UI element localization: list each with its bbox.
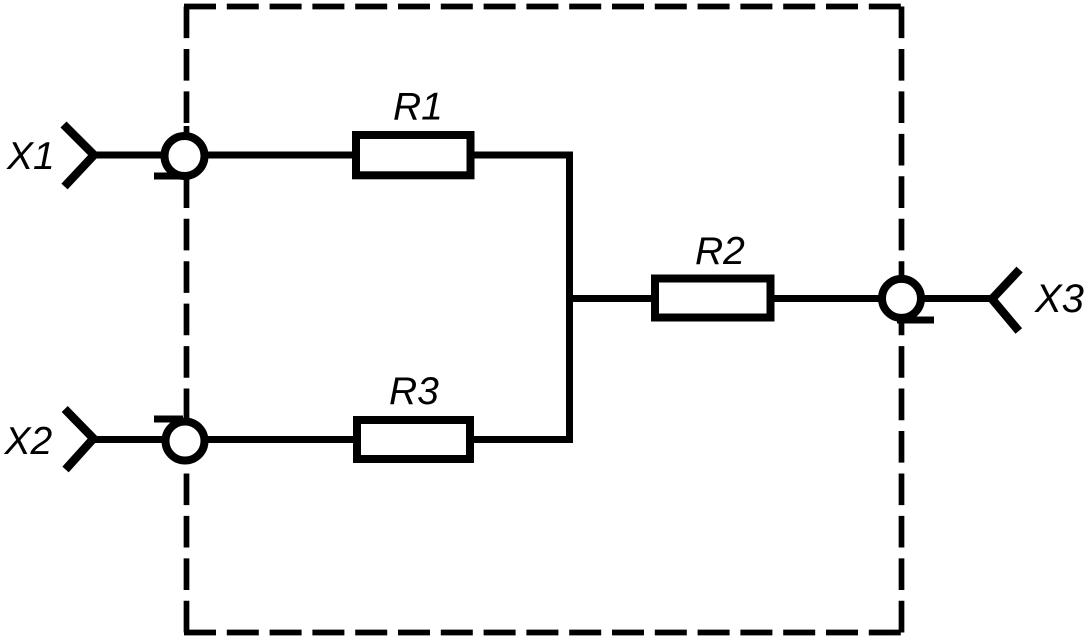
wire R2 to X3 fork bbox=[774, 295, 992, 302]
terminal circle X2 bbox=[166, 422, 205, 461]
terminal circle X1 bbox=[165, 136, 205, 176]
svg-text:X1: X1 bbox=[6, 135, 55, 178]
border dash stub above X1 terminal bbox=[184, 126, 190, 134]
terminal X1 tail bbox=[154, 173, 186, 180]
wire X2 to R3 bbox=[94, 436, 354, 443]
wire junction to R2 bbox=[566, 295, 651, 302]
resistor R1 bbox=[356, 135, 471, 175]
svg-text:X3: X3 bbox=[1034, 277, 1084, 321]
enclosure dashed border left bbox=[184, 7, 190, 633]
enclosure dashed border right bbox=[899, 7, 905, 633]
terminal circle X3 bbox=[882, 279, 921, 318]
enclosure dashed border bottom bbox=[184, 630, 902, 636]
connector pin X2 fork bbox=[65, 409, 94, 470]
terminal X2 tail bbox=[154, 416, 183, 423]
connector socket X3 fork bbox=[992, 270, 1020, 332]
svg-text:R3: R3 bbox=[389, 370, 439, 413]
svg-text:X2: X2 bbox=[4, 420, 53, 463]
svg-text:R2: R2 bbox=[695, 230, 745, 273]
terminal X3 tail bbox=[897, 317, 934, 324]
svg-text:R1: R1 bbox=[393, 86, 443, 129]
resistor R3 bbox=[357, 420, 470, 459]
wire R1 to vertical junction bbox=[474, 155, 570, 440]
enclosure dashed border top bbox=[184, 4, 902, 10]
resistor R2 bbox=[655, 279, 771, 318]
wire X1 to R1 bbox=[94, 152, 352, 159]
connector pin X1 fork bbox=[64, 125, 95, 187]
